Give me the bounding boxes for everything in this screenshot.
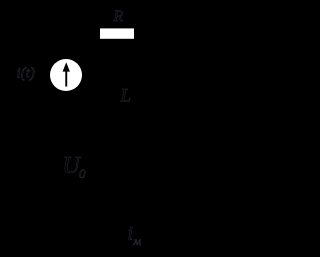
- svg-text:м: м: [133, 234, 142, 248]
- svg-text:i: i: [128, 223, 134, 245]
- svg-text:0: 0: [79, 166, 86, 181]
- svg-text:i(t): i(t): [17, 66, 35, 82]
- svg-text:L: L: [120, 86, 132, 107]
- svg-text:R: R: [113, 8, 124, 25]
